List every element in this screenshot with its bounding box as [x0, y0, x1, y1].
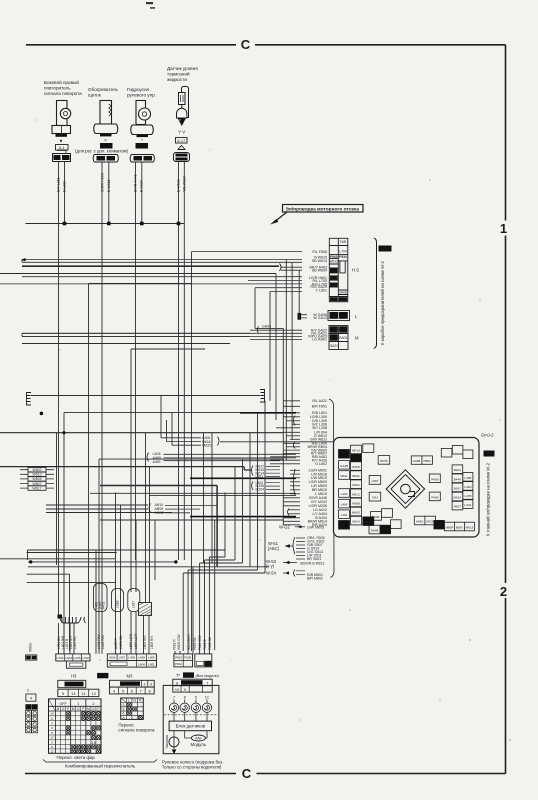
svg-text:M613: M613 — [466, 526, 474, 530]
motor: power steering body — [131, 101, 153, 135]
bracket to fuse box note — [374, 238, 377, 349]
svg-text:L702: L702 — [82, 656, 89, 660]
sensors box — [169, 721, 211, 731]
svg-text:MF1A: MF1A — [352, 449, 360, 453]
svg-text:B41B: B41B — [352, 465, 359, 469]
svg-text:W607: W607 — [32, 482, 41, 486]
svg-text:M: M — [57, 707, 60, 711]
svg-text:L608: L608 — [138, 656, 145, 660]
svg-text:L40B: L40B — [464, 476, 471, 480]
svg-text:В-16: В-16 — [99, 674, 107, 678]
svg-text:повторитель: повторитель — [44, 86, 71, 91]
engine harness arrow — [274, 212, 288, 223]
descending fan verticals to steering connector — [96, 401, 265, 654]
stack lines — [270, 401, 300, 525]
svg-text:L701: L701 — [57, 656, 64, 660]
capsule callout group 3 — [128, 589, 140, 612]
svg-text:Y V: Y V — [178, 130, 185, 135]
svg-text:B60A: B60A — [352, 474, 359, 478]
svg-text:▼: ▼ — [59, 139, 63, 144]
svg-text:К коробке предохранителей на с: К коробке предохранителей на схеме W-2 — [380, 260, 385, 345]
svg-text:P602 B: P602 B — [203, 640, 207, 650]
label B-13 — [484, 451, 495, 457]
svg-text:L404: L404 — [341, 503, 348, 507]
steering pin wires — [174, 700, 207, 722]
svg-text:MB02: MB02 — [155, 511, 164, 515]
vertical wires from components — [59, 162, 185, 561]
svg-text:G L802: G L802 — [315, 462, 327, 466]
svg-text:M: M — [87, 707, 90, 711]
svg-text:B/R F851: B/R F851 — [312, 405, 327, 409]
connector label A-16 — [100, 143, 113, 149]
wire x184 long drop — [183, 224, 185, 561]
B-16 black label left — [97, 673, 108, 678]
svg-text:L606 R/Y: L606 R/Y — [150, 635, 154, 649]
svg-text:Комбинированный переключатель: Комбинированный переключатель — [65, 764, 136, 769]
svg-text:L704: L704 — [339, 250, 347, 254]
engine harness callout box — [283, 205, 364, 213]
left callout stack W602.. — [20, 468, 54, 491]
svg-text:К главной эл/проводке на схеме: К главной эл/проводке на схеме W-2 — [486, 462, 491, 536]
svg-text:В-13: В-13 — [485, 453, 493, 457]
svg-text:W-7Б: W-7Б — [380, 247, 390, 252]
wire comp3 right to bus — [141, 162, 143, 224]
ground bus horizontal — [26, 223, 185, 225]
svg-text:ЛАБ: ЛАБ — [195, 737, 202, 741]
left stub connector (half-box) at y392-405 — [27, 393, 32, 406]
svg-text:GMBU: GMBU — [329, 277, 340, 281]
svg-text:GA21: GA21 — [330, 344, 339, 348]
clock spring coils — [169, 703, 211, 712]
svg-text:H3: H3 — [71, 674, 77, 679]
svg-text:L406: L406 — [128, 656, 135, 660]
stack group brackets — [288, 416, 296, 516]
stack closing bracket to block — [329, 399, 334, 578]
left W663 connector — [25, 643, 37, 733]
bus junction marks — [63, 222, 181, 226]
svg-text:B60R: B60R — [372, 515, 380, 519]
svg-text:OFF: OFF — [60, 702, 68, 706]
lamp: side turn repeater body — [52, 101, 71, 134]
svg-text:A446: A446 — [134, 157, 142, 161]
svg-text:(с у): (с у) — [266, 564, 275, 569]
long horizontal pair y333/336 from left — [22, 333, 250, 336]
page frame: right border vertical — [505, 45, 507, 774]
connector H3 numbered — [58, 680, 99, 696]
svg-text:BF05: BF05 — [380, 459, 388, 463]
connector label A-1 — [56, 145, 69, 151]
svg-text:A46B: A46B — [413, 459, 420, 463]
capsule callout group 1 — [94, 584, 108, 612]
svg-text:P603: P603 — [175, 656, 182, 660]
svg-text:M60R: M60R — [364, 520, 373, 524]
svg-text:12: 12 — [92, 691, 97, 696]
svg-text:T*: T* — [176, 673, 181, 678]
svg-text:7: 7 — [206, 681, 208, 685]
wire x135 long drop — [135, 224, 137, 561]
svg-text:L605: L605 — [148, 656, 155, 660]
svg-text:тормозной: тормозной — [167, 71, 190, 77]
svg-text:W612: W612 — [329, 260, 338, 264]
svg-text:Перекл. света фар: Перекл. света фар — [57, 755, 96, 760]
bold feeder lines — [190, 413, 296, 517]
svg-text:4: 4 — [113, 690, 115, 694]
wire x102 long drop — [101, 224, 103, 586]
connector label A-17 — [176, 138, 188, 144]
svg-text:SB W694: SB W694 — [312, 268, 327, 272]
svg-text:A46A: A46A — [416, 520, 423, 524]
svg-text:LG RA01: LG RA01 — [312, 338, 327, 342]
right label stack (wires to main harness) — [308, 399, 327, 527]
W-54 branch — [266, 570, 323, 581]
svg-text:7: 7 — [173, 695, 175, 699]
svg-text:L61B: L61B — [116, 601, 120, 608]
wire comp3 left down — [135, 162, 137, 224]
svg-text:Эл/проводка моторного отсека: Эл/проводка моторного отсека — [286, 207, 360, 213]
svg-text:W GA13: W GA13 — [313, 316, 327, 320]
svg-text:(для рег. с доп. климатом): (для рег. с доп. климатом) — [75, 149, 129, 154]
svg-text:P: P — [82, 707, 84, 711]
svg-text:B60X: B60X — [456, 526, 463, 530]
connector M — [329, 326, 348, 350]
svg-text:M: M — [355, 336, 359, 341]
mid verticals — [57, 396, 218, 652]
callout L408 group — [161, 436, 333, 448]
wire labels feeding H.S connector — [308, 250, 327, 342]
mid horizontals — [0, 349, 296, 651]
connector block under heater — [93, 155, 118, 163]
long horizontal y343 — [22, 343, 230, 345]
svg-text:4: 4 — [30, 697, 32, 701]
svg-text:Обогреватель: Обогреватель — [88, 87, 119, 92]
svg-text:C: C — [241, 37, 251, 52]
svg-text:10: 10 — [175, 688, 179, 692]
wire comp4 left to bus — [178, 162, 180, 224]
svg-text:LA03: LA03 — [65, 656, 72, 660]
svg-text:R823 BR/Y: R823 BR/Y — [187, 633, 191, 650]
left edge connector stub y257-261 — [21, 260, 23, 263]
svg-text:L401: L401 — [341, 513, 348, 517]
svg-text:Гидроусил.: Гидроусил. — [127, 87, 151, 92]
svg-text:F&B: F&B — [340, 240, 347, 244]
svg-text:P60A: P60A — [175, 662, 182, 666]
wire comp2 left down — [101, 162, 103, 224]
block cell labels — [340, 449, 473, 533]
svg-text:B/R M802: B/R M802 — [307, 577, 323, 581]
svg-text:3AAB: 3AAB — [371, 529, 379, 533]
svg-text:L604: L604 — [138, 662, 145, 666]
label W-7B — [379, 246, 392, 252]
svg-text:R/L F855: R/L F855 — [312, 250, 327, 254]
svg-text:R409: R409 — [431, 477, 439, 481]
svg-text:H.S: H.S — [352, 268, 359, 273]
svg-text:GA23: GA23 — [330, 336, 339, 340]
steering pin numbers — [173, 695, 210, 699]
svg-text:SB/OR·B R823: SB/OR·B R823 — [300, 561, 324, 565]
wires into H.S labels — [0, 252, 307, 340]
svg-text:1C: 1C — [205, 695, 210, 699]
svg-text:Датчик уровня: Датчик уровня — [167, 66, 198, 71]
svg-text:C: C — [242, 766, 252, 781]
svg-text:3,6: 3,6 — [91, 741, 96, 745]
wire comp2 right to bus — [108, 162, 110, 224]
svg-text:2: 2 — [92, 702, 94, 706]
svg-text:P609: P609 — [184, 656, 191, 660]
svg-text:9: 9 — [184, 688, 186, 692]
fuse box connector H.S — [329, 238, 348, 301]
svg-text:F949: F949 — [330, 255, 338, 259]
bottom area long horizontals — [27, 553, 269, 652]
wire bundle merge funnel — [60, 617, 86, 624]
wire comp1 right to bus — [64, 162, 66, 224]
vertical drops into bottom connectors — [59, 585, 215, 654]
svg-text:MF02: MF02 — [204, 662, 212, 666]
corner wire from x191.5 — [191, 252, 193, 651]
svg-text:PA09: PA09 — [431, 495, 438, 499]
svg-text:H603: H603 — [97, 157, 105, 161]
wire x58.5 long drop — [58, 224, 60, 617]
svg-text:(Все модели): (Все модели) — [196, 674, 220, 678]
svg-text:L601: L601 — [148, 662, 155, 666]
svg-text:МБН: МБН — [330, 298, 338, 302]
junction dot — [40, 412, 44, 416]
svg-text:GA06: GA06 — [262, 324, 271, 328]
wire loop left leg — [88, 284, 90, 652]
svg-text:Модуль: Модуль — [191, 742, 207, 747]
svg-text:M611: M611 — [340, 474, 348, 478]
scan noise specks — [36, 119, 511, 741]
page frame: bottom border line — [25, 773, 506, 775]
lamp base black bar — [56, 134, 68, 137]
svg-text:M612: M612 — [352, 483, 360, 487]
connector label A-16 — [136, 143, 149, 149]
connector row right (P-wires) — [174, 654, 212, 667]
svg-text:M3: M3 — [127, 674, 133, 679]
capsule callout group 2 — [112, 589, 124, 612]
bottom junction dots — [29, 560, 32, 563]
dashed separator — [164, 714, 218, 716]
svg-text:GA4B: GA4B — [340, 464, 348, 468]
right edge callout group L802 — [252, 481, 280, 492]
svg-text:P: P — [97, 707, 99, 711]
svg-text:M614: M614 — [352, 520, 360, 524]
svg-text:M40X: M40X — [435, 524, 443, 528]
svg-text:рулевого упр.: рулевого упр. — [127, 93, 156, 98]
svg-text:3A0Б: 3A0Б — [339, 291, 347, 295]
svg-text:L40A: L40A — [464, 503, 471, 507]
svg-text:L607: L607 — [119, 656, 126, 660]
svg-text:L211: L211 — [54, 156, 61, 160]
horn circle with arrow — [169, 731, 179, 754]
svg-text:PB54: PB54 — [424, 459, 432, 463]
svg-text:8: 8 — [149, 690, 151, 694]
svg-text:B44A: B44A — [454, 477, 461, 481]
GA06 tap callout — [255, 288, 283, 334]
svg-text:8: 8 — [176, 681, 178, 685]
svg-text:B40A: B40A — [454, 468, 461, 472]
float tip — [178, 118, 187, 126]
svg-text:8: 8 — [184, 695, 186, 699]
svg-text:M61A: M61A — [453, 496, 461, 500]
svg-text:AAB4: AAB4 — [329, 283, 338, 287]
svg-text:P605 R/L: P605 R/L — [193, 636, 197, 650]
svg-text:A638: A638 — [144, 157, 152, 161]
svg-text:J410: J410 — [372, 496, 379, 500]
svg-text:2: 2 — [27, 689, 29, 693]
sensor: brake fluid level sensor — [177, 87, 189, 119]
svg-text:F934: F934 — [339, 255, 347, 259]
svg-text:GmJ-2: GmJ-2 — [481, 433, 494, 438]
svg-text:17: 17 — [50, 736, 54, 740]
connector M3 numbered — [110, 680, 155, 694]
svg-text:В-16: В-16 — [185, 674, 193, 678]
svg-text:P: P — [67, 707, 69, 711]
svg-text:GA30: GA30 — [339, 328, 348, 332]
connector block under steering motor — [130, 155, 154, 163]
wires continuing below bus — [59, 224, 185, 617]
svg-text:RA01: RA01 — [339, 336, 347, 340]
svg-text:R607: R607 — [454, 505, 462, 509]
svg-text:GA22: GA22 — [330, 328, 339, 332]
svg-text:11: 11 — [50, 716, 53, 720]
block centre diamond — [386, 470, 424, 508]
svg-text:M60G: M60G — [352, 511, 361, 515]
svg-text:R/L A422: R/L A422 — [312, 399, 327, 403]
svg-text:A-1: A-1 — [59, 145, 66, 150]
svg-text:L&B7: L&B7 — [339, 298, 347, 302]
svg-text:A-17: A-17 — [177, 139, 185, 143]
svg-text:GA13: GA13 — [339, 314, 348, 318]
svg-text:[АБС]: [АБС] — [268, 546, 279, 551]
svg-text:*: * — [141, 138, 143, 143]
svg-text:12: 12 — [50, 749, 54, 753]
svg-text:7: 7 — [140, 690, 142, 694]
connector L (2 cells black) — [328, 311, 350, 321]
headlight switch table — [49, 699, 102, 754]
svg-text:MB-Б: MB-Б — [330, 269, 338, 273]
svg-text:Боковой правый: Боковой правый — [44, 79, 79, 85]
callout AB10 group — [149, 503, 217, 515]
svg-text:W617: W617 — [32, 486, 41, 490]
connector row middle — [107, 654, 156, 667]
left feeder verticals into stack — [270, 260, 299, 526]
svg-text:Y L801: Y L801 — [316, 289, 327, 293]
svg-text:M71E: M71E — [426, 520, 434, 524]
W-53 branch — [266, 559, 324, 569]
svg-text:B16Y: B16Y — [454, 486, 461, 490]
svg-text:W611: W611 — [107, 157, 115, 161]
right edge callout group M617 — [252, 465, 281, 479]
connector capsule under sensor — [173, 146, 189, 162]
svg-text:жидкости: жидкости — [167, 77, 187, 82]
svg-text:1: 1 — [77, 702, 79, 706]
junction squares on L wires — [298, 313, 302, 317]
wire labels under components (vertical text) — [57, 173, 187, 192]
svg-text:A403 R: A403 R — [114, 638, 118, 649]
svg-text:щеток: щеток — [88, 93, 102, 98]
connector T* numbered — [173, 679, 212, 692]
svg-text:3: 3 — [150, 683, 152, 687]
svg-text:P606 SB: P606 SB — [208, 637, 212, 650]
svg-text:1: 1 — [500, 221, 507, 236]
svg-text:M204: M204 — [256, 488, 265, 492]
scan marks top edge — [146, 2, 153, 4]
svg-text:G/W M605: G/W M605 — [307, 525, 324, 529]
svg-text:W601 B/L: W601 B/L — [119, 635, 123, 649]
svg-text:LA05: LA05 — [73, 656, 80, 660]
svg-text:A451: A451 — [153, 460, 161, 464]
W-51 ABS group — [268, 536, 325, 561]
right stub connector at y395 — [260, 390, 265, 403]
wire comp4 right down — [183, 162, 185, 224]
svg-text:Только со стороны водителя): Только со стороны водителя) — [162, 765, 222, 770]
svg-text:GA06: GA06 — [330, 314, 339, 318]
wire loop rectangle top — [0, 260, 276, 652]
svg-text:2: 2 — [500, 584, 507, 599]
svg-text:5: 5 — [195, 695, 197, 699]
svg-text:M411: M411 — [352, 457, 360, 461]
block cells — [339, 444, 475, 534]
W-G2 branch — [279, 525, 324, 530]
svg-text:L47B: L47B — [464, 494, 471, 498]
svg-text:13: 13 — [71, 691, 76, 696]
callout L405 group — [147, 452, 296, 464]
svg-text:B/T L308: B/T L308 — [312, 426, 327, 430]
svg-text:M61C: M61C — [352, 492, 361, 496]
svg-text:сигнала поворота: сигнала поворота — [118, 728, 155, 733]
steering wheel block outline — [163, 685, 219, 753]
combination switch brace — [43, 760, 157, 763]
connector block under lamp — [53, 151, 71, 162]
heater: wiper heater body — [94, 101, 118, 134]
svg-text:14: 14 — [50, 712, 54, 716]
bundle split bracket — [280, 264, 282, 272]
connector row left (lamp circuits) — [56, 654, 90, 668]
svg-text:×: × — [104, 138, 107, 143]
component: side turn signal repeater label — [44, 66, 198, 98]
svg-text:B44A: B44A — [382, 529, 389, 533]
svg-text:P601 R: P601 R — [173, 639, 177, 650]
svg-text:6: 6 — [131, 690, 133, 694]
svg-text:W603 G/W: W603 G/W — [177, 634, 181, 650]
svg-text:W610: W610 — [32, 473, 41, 477]
junction dot2 — [62, 431, 65, 434]
svg-text:SB W614: SB W614 — [312, 259, 327, 263]
hatched connector box — [139, 603, 152, 616]
left bottom wire labels (vertical) — [57, 633, 212, 650]
page frame: top border line right of C — [255, 44, 506, 46]
svg-text:Часовая: Часовая — [165, 735, 169, 748]
svg-text:W604: W604 — [32, 477, 41, 481]
svg-text:A-16: A-16 — [138, 145, 146, 149]
svg-text:сигнала поворота: сигнала поворота — [44, 91, 82, 96]
svg-text:L603: L603 — [62, 156, 69, 160]
svg-text:Блок датчиков: Блок датчиков — [176, 724, 206, 729]
svg-text:L: L — [128, 699, 130, 703]
svg-text:L40D: L40D — [464, 485, 472, 489]
svg-text:L807: L807 — [372, 479, 379, 483]
svg-text:L606: L606 — [109, 656, 116, 660]
svg-text:W-54: W-54 — [266, 571, 277, 576]
svg-text:W663: W663 — [29, 643, 33, 652]
module oval — [185, 731, 207, 741]
wire comp1 left down — [58, 162, 60, 224]
main harness block GmJ-2 outline — [334, 438, 480, 538]
svg-text:W602: W602 — [32, 468, 41, 472]
B-16 black label right — [183, 672, 194, 677]
svg-text:2: 2 — [144, 683, 146, 687]
svg-text:M60P: M60P — [445, 526, 453, 530]
